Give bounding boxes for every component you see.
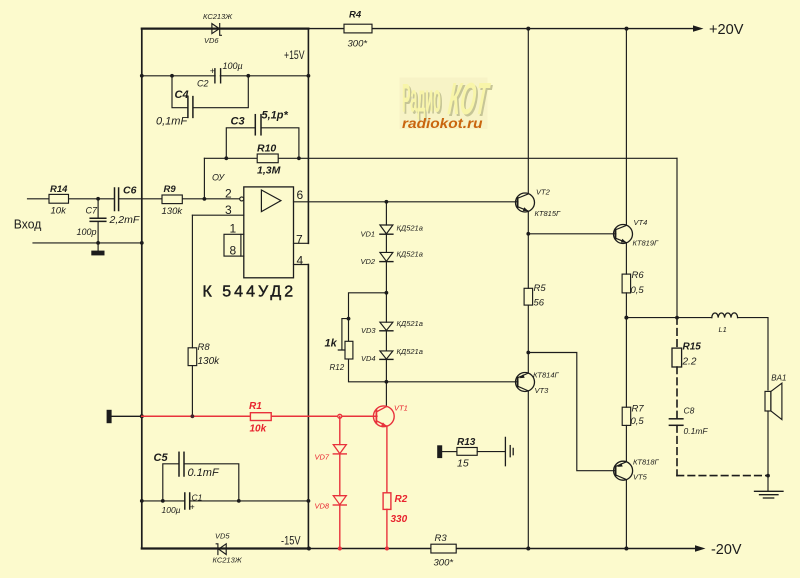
resistor R8 130k: [188, 342, 220, 367]
chassis bar at red node (left): [107, 410, 144, 423]
svg-text:+15V: +15V: [284, 48, 305, 62]
junction dot C7 bottom: [96, 241, 100, 245]
transistor VT1 (red NPN): [373, 403, 407, 426]
resistor R14 10k: [49, 184, 69, 217]
wire: pin2 drop from R10 line: [203, 158, 205, 199]
diode VD4 КД521а: [361, 347, 423, 363]
junction dot -15V rail end: [307, 547, 311, 551]
wire: VT4 collector to +20V rail: [625, 29, 627, 226]
capacitor C5 0.1mF: [154, 452, 220, 479]
wire: left edge of main box: [141, 29, 143, 549]
svg-text:R15: R15: [683, 342, 702, 353]
op-amp offset pins 1/8 box: [224, 221, 244, 257]
wire: pin 3 line: [192, 214, 243, 216]
svg-text:КТ818Г: КТ818Г: [633, 457, 660, 466]
svg-text:130k: 130k: [198, 356, 221, 367]
wire: feedback vertical from R10 line down to output node: [676, 158, 678, 317]
wire: right edge of main box upper segment (pin 7 to +rail): [307, 29, 309, 244]
svg-text:VD3: VD3: [361, 326, 376, 335]
junction dots C5/C1 line: [140, 499, 310, 503]
svg-text:R7: R7: [632, 403, 645, 414]
capacitor C8 0.1mF: [669, 406, 708, 436]
svg-text:1,3М: 1,3М: [257, 165, 281, 177]
svg-text:R10: R10: [257, 143, 276, 155]
resistor R5 56: [524, 283, 546, 309]
svg-text:300*: 300*: [348, 39, 368, 50]
svg-text:К 544УД2: К 544УД2: [203, 284, 297, 301]
capacitor C7 100p shunt: [77, 199, 106, 243]
wire: internal +15V rail: [142, 75, 309, 77]
diode VD3 КД521а: [361, 319, 423, 335]
wire: red node horizontal (R1 line): [142, 415, 377, 417]
ground symbol right of R13 (rotated): [505, 437, 513, 465]
svg-text:R14: R14: [50, 184, 68, 195]
wire: R5 to VT3 emitter node: [527, 305, 529, 352]
resistor R13 15: [457, 437, 477, 470]
wire: top +20V rail thick left section: [142, 28, 309, 30]
zener diode VD5 КС213Ж on -15V rail: [213, 532, 243, 565]
svg-text:R8: R8: [198, 342, 211, 353]
wire: pin 4 to -15V edge: [294, 264, 309, 266]
wire: R6 to output node: [625, 293, 627, 318]
svg-text:4: 4: [297, 253, 304, 267]
svg-text:56: 56: [534, 297, 545, 308]
junction dot R8 / red node: [191, 414, 195, 418]
svg-text:VD6: VD6: [204, 36, 219, 45]
svg-text:КТ819Г: КТ819Г: [633, 238, 660, 247]
svg-text:1: 1: [230, 221, 237, 235]
svg-text:7: 7: [296, 233, 303, 247]
junction dot diode chain bottom / R12 / VT3 base: [385, 380, 389, 384]
wire: VT3 node to VT5 base (down-right path): [528, 353, 616, 471]
svg-text:3: 3: [225, 203, 232, 217]
svg-text:-15V: -15V: [281, 533, 301, 547]
wire: VT1 emitter to R2 (red): [386, 426, 388, 493]
resistor R3 300*: [431, 533, 456, 569]
svg-text:8: 8: [230, 243, 237, 257]
wire: R12 loop: [349, 293, 387, 382]
junction dot pin6 line / diode chain: [385, 200, 389, 204]
wire: VT4 emitter down to R6: [625, 243, 627, 275]
+20V arrowhead: [693, 25, 704, 31]
wire: C3 loop: [226, 128, 299, 159]
transistor VT5 КТ818Г (PNP): [614, 457, 660, 481]
wire: right edge of main box lower segment (pin 4 to -rail): [307, 265, 309, 549]
svg-text:0.1mF: 0.1mF: [188, 467, 220, 479]
svg-text:15: 15: [457, 458, 469, 470]
svg-text:+20V: +20V: [709, 21, 744, 38]
svg-text:VD1: VD1: [361, 229, 376, 238]
svg-text:КД521а: КД521а: [397, 224, 423, 233]
svg-text:C4: C4: [175, 89, 189, 101]
resistor R6 0,5: [622, 270, 644, 296]
resistor R4: [344, 10, 372, 50]
wire: VT2 emitter down to node: [527, 211, 529, 234]
svg-text:C5: C5: [154, 452, 169, 464]
wire: VT3 base line from diode chain: [386, 381, 518, 383]
junction dot R2 on -20V rail: [385, 547, 389, 551]
junction dot diode chain / R12 top: [385, 291, 389, 295]
logo text: КОТ: [446, 74, 494, 126]
resistor R9 130k: [162, 184, 184, 217]
svg-text:10k: 10k: [250, 423, 267, 434]
logo text: Радио: [402, 76, 443, 123]
transistor VT3 КТ814Г (PNP): [516, 370, 560, 395]
svg-text:6: 6: [297, 188, 304, 202]
junction dots on +15V rail: [140, 74, 310, 78]
-20V arrowhead: [695, 545, 706, 551]
svg-text:R2: R2: [395, 494, 408, 505]
wire: C5 loop: [163, 464, 239, 501]
wire: VT3 emitter up to node: [527, 353, 529, 374]
svg-text:VT5: VT5: [633, 473, 648, 482]
svg-text:5,1p*: 5,1p*: [262, 110, 289, 122]
junction dot red branch on -20V rail: [338, 547, 342, 551]
svg-text:КД521а: КД521а: [397, 347, 423, 356]
wire: R2 to -20V rail (red): [386, 509, 388, 548]
wire: VT5 collector to -20V rail: [625, 480, 627, 549]
svg-text:КД521а: КД521а: [397, 250, 423, 259]
trimmer R12 wiper tap: [338, 317, 350, 350]
op-amp U1 К544УД2 body: [244, 187, 294, 278]
svg-text:+: +: [210, 66, 216, 77]
svg-text:VT2: VT2: [536, 187, 551, 196]
chassis bar at R13: [437, 445, 442, 458]
wire: C4 loop: [172, 76, 248, 108]
svg-text:300*: 300*: [434, 557, 454, 568]
wire: R13 left lead: [442, 451, 457, 453]
svg-text:100µ: 100µ: [162, 505, 181, 515]
wire: VT2 emitter node to VT4 base: [528, 233, 616, 235]
svg-text:R6: R6: [632, 270, 645, 281]
svg-text:2.2: 2.2: [682, 356, 697, 367]
svg-text:C6: C6: [123, 185, 137, 197]
op-amp inverting input circle pin 2: [240, 197, 244, 201]
trimmer R12 1k body: [325, 337, 353, 372]
svg-text:0,5: 0,5: [631, 416, 645, 427]
wire: output line to L1 and right corner: [626, 318, 768, 390]
svg-text:-20V: -20V: [711, 541, 742, 558]
svg-text:R1: R1: [249, 401, 262, 412]
svg-text:VD7: VD7: [315, 452, 330, 461]
diode VD8 (red): [315, 496, 347, 511]
junction dot red wire / VD7 branch: [338, 414, 342, 418]
wire: node down to R5: [527, 234, 529, 288]
junction dot feedback/Zobel tap: [675, 316, 679, 320]
capacitor C1 100µ electrolytic: [162, 492, 203, 515]
junction dot VT2 emitter node: [526, 232, 530, 236]
svg-text:КТ814Г: КТ814Г: [533, 370, 560, 379]
svg-text:КС213Ж: КС213Ж: [213, 555, 243, 564]
wire: R8 branch from pin3 line down to red node: [191, 215, 193, 416]
svg-text:0,5: 0,5: [631, 285, 645, 296]
junction dot dashed line / speaker ground: [766, 474, 770, 478]
svg-text:C7: C7: [86, 206, 98, 216]
wire: speaker to ground: [767, 411, 769, 491]
wire: pin 7 to +15V edge: [294, 242, 309, 244]
junction dot top rail / VT4 collector: [625, 27, 629, 31]
wire: VT1 collector link (black): [385, 382, 387, 407]
svg-text:R9: R9: [164, 184, 177, 195]
diode VD2 КД521а: [361, 250, 423, 266]
svg-text:BA1: BA1: [771, 374, 786, 383]
svg-text:C8: C8: [684, 406, 695, 416]
svg-text:2,2mF: 2,2mF: [109, 214, 140, 226]
svg-text:+: +: [190, 501, 195, 511]
svg-text:100µ: 100µ: [223, 61, 243, 71]
inductor L1: [712, 313, 738, 334]
svg-text:КД521а: КД521а: [397, 319, 423, 328]
svg-text:КС213Ж: КС213Ж: [203, 12, 233, 21]
svg-text:R5: R5: [534, 283, 547, 294]
resistor R15 2.2: [672, 342, 701, 368]
wire: R13 right lead: [477, 451, 505, 453]
wire: top +20V rail right section to arrow: [308, 28, 694, 30]
svg-text:100p: 100p: [77, 227, 97, 237]
svg-text:VD8: VD8: [315, 502, 330, 511]
resistor R7 0,5: [622, 403, 644, 427]
svg-text:2: 2: [225, 186, 232, 200]
wire: lower input return line: [33, 242, 142, 244]
wire: pin 6 output line to VT2 base: [294, 201, 519, 203]
svg-text:VD5: VD5: [215, 532, 230, 541]
svg-text:L1: L1: [719, 325, 727, 334]
logo block background: [400, 78, 488, 130]
svg-text:130k: 130k: [162, 206, 184, 217]
svg-text:330: 330: [391, 514, 408, 525]
svg-text:R12: R12: [330, 363, 345, 372]
capacitor C6 2,2mF: [109, 185, 140, 227]
resistor R10 1,3M: [257, 143, 281, 177]
zener diode VD6 КС213Ж: [203, 12, 233, 45]
svg-text:VD4: VD4: [361, 354, 376, 363]
svg-text:R3: R3: [435, 533, 448, 544]
wire: R10 feedback line: [204, 157, 677, 159]
junction dot VT3 emitter node: [526, 351, 530, 355]
svg-text:КТ815Г: КТ815Г: [535, 209, 562, 218]
wire: VD1-VD4 diode chain vertical: [385, 202, 387, 382]
speaker BA1: [765, 374, 786, 420]
resistor R2 330 (red): [383, 493, 408, 525]
transistor VT2 КТ815Г (NPN): [516, 187, 562, 218]
svg-text:Вход: Вход: [14, 217, 42, 232]
wire: red VD7/VD8 branch vertical: [339, 416, 341, 548]
svg-text:ОУ: ОУ: [212, 172, 225, 182]
svg-text:VD2: VD2: [361, 257, 376, 266]
ground symbol (earth) right: [755, 491, 784, 498]
junction dots on R10 line (C3 taps): [224, 156, 300, 160]
diode VD7 (red): [315, 445, 347, 462]
junction dot VT3 collector on rail: [526, 547, 530, 551]
svg-text:C3: C3: [231, 116, 245, 128]
svg-text:R13: R13: [457, 437, 476, 448]
dashed Zobel branch vertical: [677, 318, 768, 476]
svg-text:0,1mF: 0,1mF: [156, 116, 188, 128]
svg-text:R4: R4: [349, 10, 362, 21]
junction dot output node: [624, 316, 628, 320]
wire: bottom -20V rail right section to arrow: [310, 548, 697, 550]
svg-text:VT3: VT3: [535, 386, 550, 395]
wire: C5/C1 return line: [142, 500, 309, 502]
svg-text:1k: 1k: [325, 337, 338, 349]
junction dot top rail / VT2 collector: [526, 27, 530, 31]
wire: VT2 collector to +20V rail: [527, 29, 529, 194]
junction dot return line at box edge: [140, 241, 144, 245]
wire: VT3 collector to -20V rail: [527, 391, 529, 549]
input ground bar: [91, 243, 104, 256]
svg-text:radiokot.ru: radiokot.ru: [402, 115, 483, 131]
capacitor C4 0,1mF: [156, 89, 193, 128]
svg-text:C2: C2: [197, 79, 209, 89]
wire: input signal line: [28, 198, 241, 200]
svg-text:VT4: VT4: [634, 218, 648, 227]
wire: bottom -20V rail thick left section: [142, 547, 310, 549]
transistor VT4 КТ819Г (NPN): [614, 218, 660, 247]
junction dot pin2 node: [203, 197, 207, 201]
junction dot input / C7: [96, 197, 100, 201]
wire: R7 branch down from output node: [625, 318, 627, 462]
capacitor C2 100µ electrolytic on +15V rail: [197, 61, 243, 89]
svg-text:10k: 10k: [51, 206, 68, 217]
diode VD1 КД521а: [361, 224, 423, 239]
junction dot VT5 collector on rail: [624, 547, 628, 551]
svg-text:0.1mF: 0.1mF: [684, 426, 709, 436]
svg-text:VT1: VT1: [394, 403, 408, 412]
capacitor C3 5,1p*: [231, 110, 289, 135]
resistor R1 10k (red): [249, 401, 271, 434]
